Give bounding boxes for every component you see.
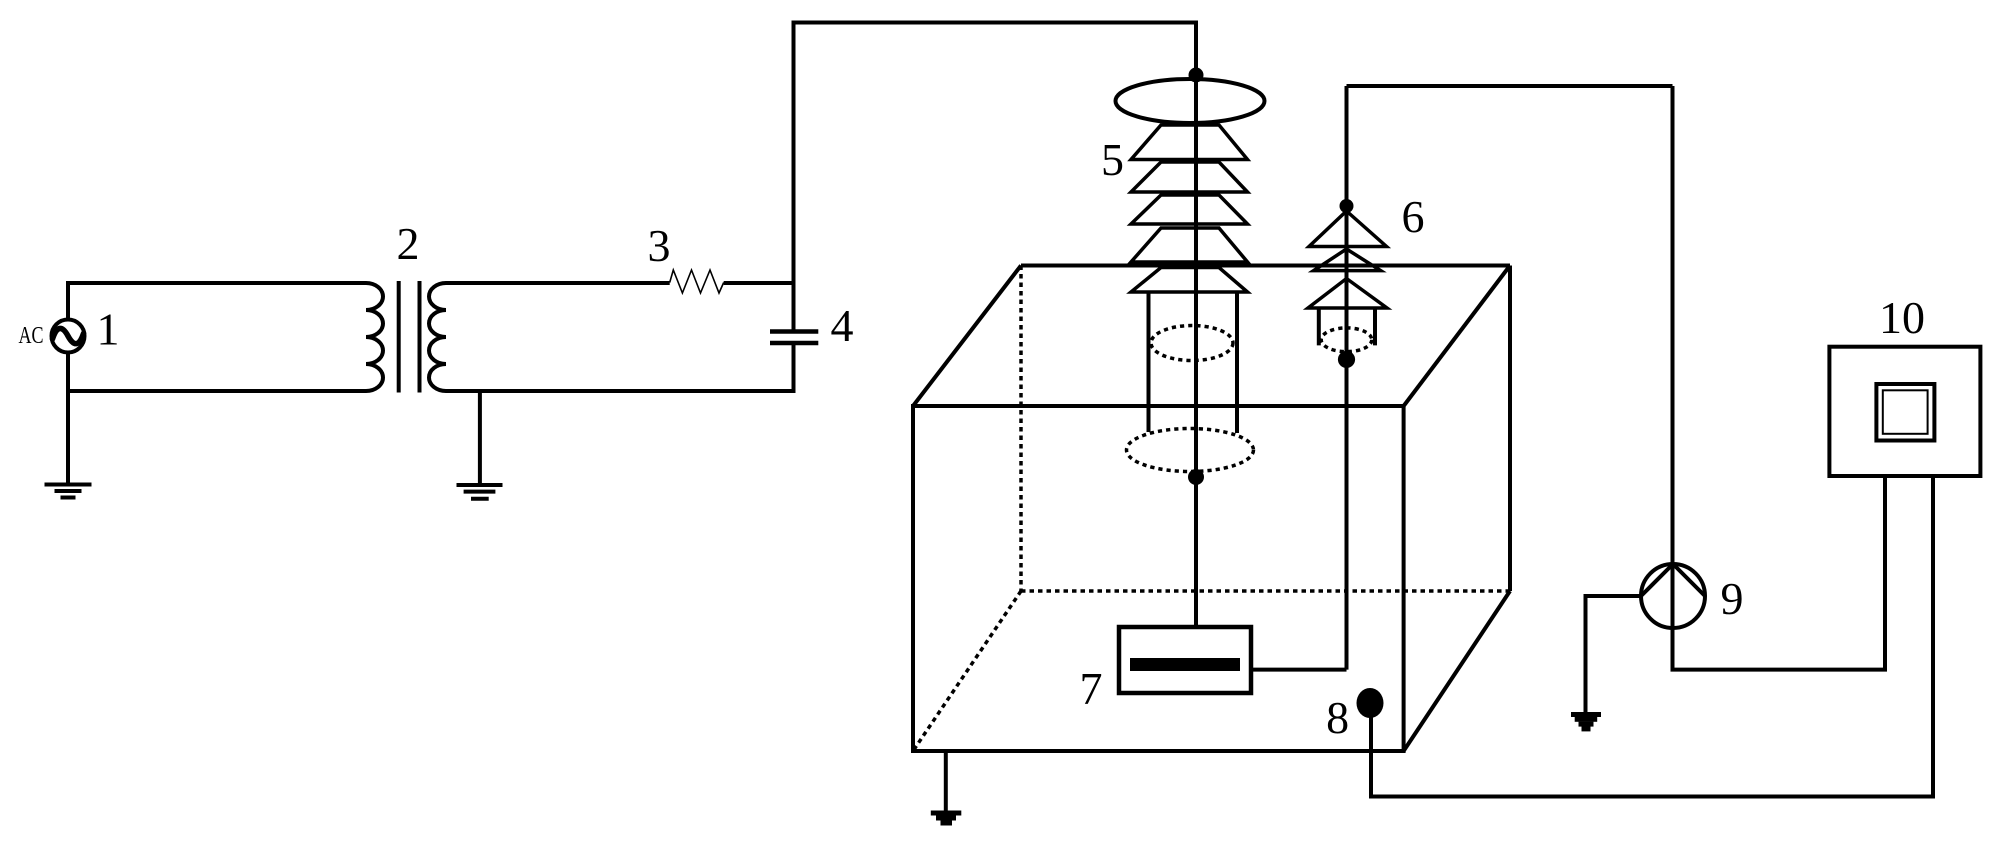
node dot bottom of bushing 6 xyxy=(1338,351,1355,368)
pump chords xyxy=(1641,564,1705,596)
bushing 6 xyxy=(1308,86,1673,670)
svg-text:6: 6 xyxy=(1402,191,1425,242)
pump circle xyxy=(1641,564,1705,628)
box 10 middle square xyxy=(1876,384,1934,441)
wire transformer ground stem xyxy=(478,391,482,484)
wire top rail from capacitor up and across to bushing 5 xyxy=(794,23,1197,628)
svg-text:8: 8 xyxy=(1326,692,1349,743)
wire resistor to node xyxy=(724,281,794,285)
bushing 6 cylinder walls xyxy=(1319,308,1375,345)
tank bottom right diagonal xyxy=(1404,591,1510,751)
detector box 7 xyxy=(1080,627,1347,714)
ground at AC source xyxy=(45,485,92,498)
wire AC top vertical xyxy=(66,283,70,320)
node dot top of bushing 6 xyxy=(1340,199,1354,213)
wire pump left to ground xyxy=(1586,596,1642,713)
shed triangle 3 xyxy=(1308,279,1387,309)
tank hidden back left vertical dashed xyxy=(1019,266,1023,592)
transformer T2 primary winding with wires xyxy=(66,283,383,391)
transformer T2 core xyxy=(399,281,420,393)
svg-text:AC: AC xyxy=(19,323,44,349)
shed 4 xyxy=(1131,228,1248,262)
svg-text:5: 5 xyxy=(1101,134,1124,185)
bushing 5 upper dashed ellipse xyxy=(1151,326,1233,361)
tank hidden bottom left diagonal dashed xyxy=(913,591,1021,751)
shed triangle 2 xyxy=(1314,249,1381,271)
bushing 5 xyxy=(1101,68,1265,486)
svg-text:1: 1 xyxy=(97,304,120,355)
wire secondary top to resistor xyxy=(446,281,670,285)
capacitor 4 plates xyxy=(770,332,818,344)
ground at pump xyxy=(1571,712,1601,731)
wire AC bottom vertical xyxy=(66,353,70,485)
resistor 3 zigzag xyxy=(670,270,724,293)
tank top right diagonal xyxy=(1404,266,1510,407)
shed 3 xyxy=(1131,195,1248,224)
node dot bottom of bushing 5 xyxy=(1188,469,1204,485)
shed 2 xyxy=(1131,162,1248,192)
wire bushing 6 conductor xyxy=(1345,86,1349,670)
svg-text:3: 3 xyxy=(648,220,671,271)
svg-text:7: 7 xyxy=(1080,663,1103,714)
wire box 7 to bushing 6 conductor xyxy=(1251,668,1347,672)
node dot top of bushing 5 xyxy=(1189,68,1204,83)
wire dot 8 down right and up to box 10 xyxy=(1371,476,1933,797)
shed 1 xyxy=(1131,125,1248,160)
transformer T2 secondary winding xyxy=(429,283,446,391)
bushing 5 lower dashed ellipse xyxy=(1127,429,1254,472)
tank ground stem xyxy=(944,751,948,812)
pump 9 xyxy=(1571,86,1885,731)
oil tank box xyxy=(913,266,1510,826)
box 10 inner square xyxy=(1883,390,1928,434)
svg-text:9: 9 xyxy=(1721,573,1744,624)
svg-text:10: 10 xyxy=(1879,292,1925,343)
wire rail bushing 6 to pump xyxy=(1347,84,1673,88)
bushing 5 cylinder walls xyxy=(1149,292,1238,433)
ground at tank xyxy=(931,811,962,826)
AC source 1 xyxy=(52,320,85,353)
shed 5 xyxy=(1131,268,1248,293)
ground at transformer xyxy=(457,485,503,499)
AC source sine wave xyxy=(53,328,84,343)
shed triangle 1 xyxy=(1309,211,1387,247)
tank back top edge xyxy=(1021,264,1510,268)
corona ring ellipse xyxy=(1116,79,1265,123)
tank front face xyxy=(913,406,1404,751)
measuring instrument box 10 xyxy=(1829,292,1980,476)
svg-text:4: 4 xyxy=(831,300,854,351)
wire pump vertical and to box 10 xyxy=(1673,86,1886,670)
tank top left diagonal xyxy=(913,266,1021,407)
tank hidden back bottom dashed xyxy=(1021,589,1510,593)
svg-text:2: 2 xyxy=(397,218,420,269)
wire secondary bottom to capacitor bottom xyxy=(446,345,794,392)
tank back right vertical xyxy=(1508,266,1512,592)
box 7 black bar xyxy=(1130,658,1240,671)
bushing 6 dashed ellipse xyxy=(1321,328,1372,352)
sensor dot 8 xyxy=(1326,476,1933,797)
